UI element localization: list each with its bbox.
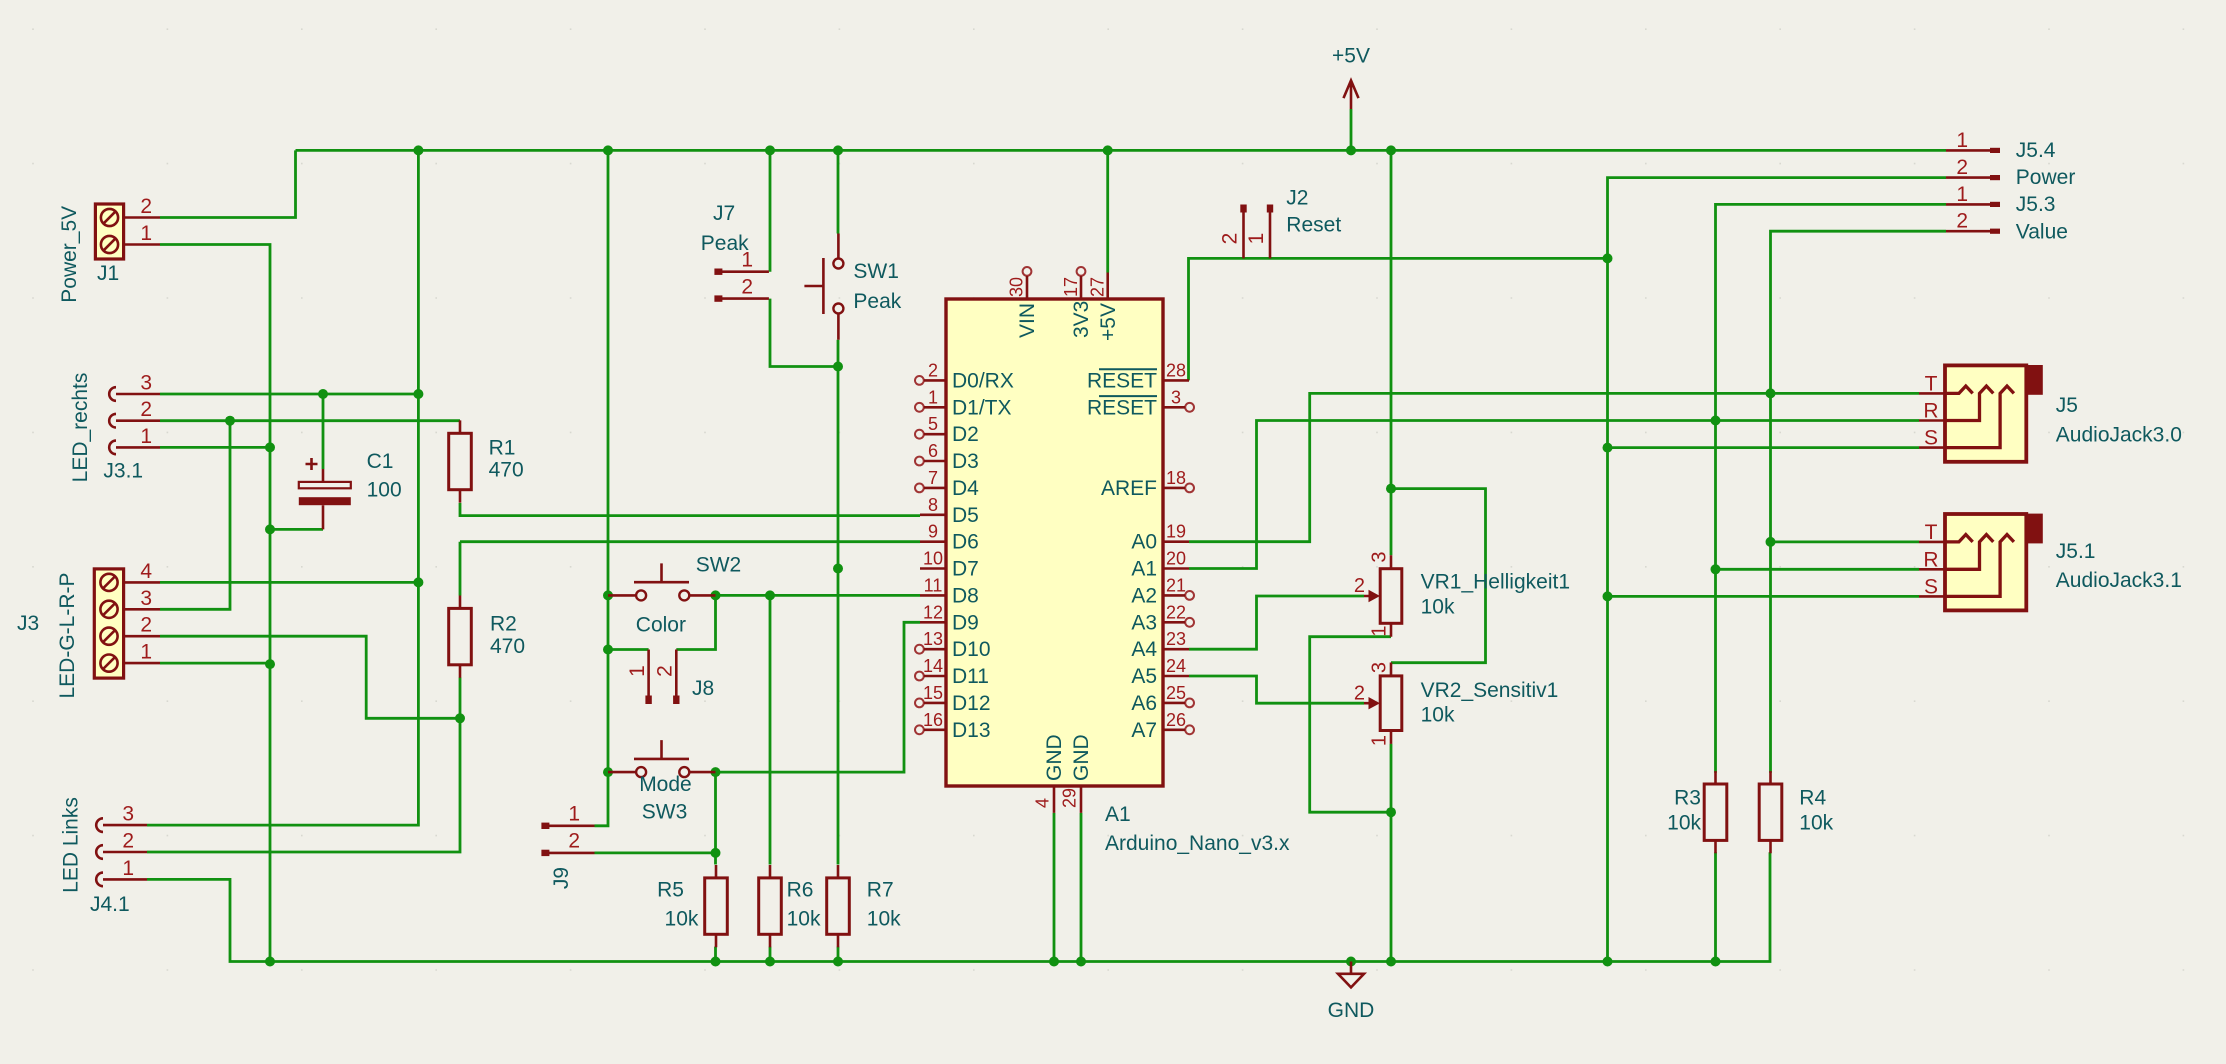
- svg-text:R: R: [1923, 548, 1938, 571]
- svg-text:GND: GND: [1328, 999, 1375, 1022]
- svg-text:Mode: Mode: [639, 773, 692, 796]
- svg-text:S: S: [1924, 575, 1938, 598]
- svg-text:D1/TX: D1/TX: [952, 396, 1012, 419]
- svg-text:2: 2: [928, 360, 938, 380]
- svg-text:J7: J7: [713, 202, 735, 225]
- svg-text:+5V: +5V: [1332, 45, 1370, 68]
- svg-text:Power: Power: [2016, 166, 2076, 189]
- svg-text:R6: R6: [787, 878, 814, 901]
- svg-text:1: 1: [140, 222, 152, 245]
- svg-text:1: 1: [741, 249, 753, 272]
- svg-text:1: 1: [122, 857, 134, 880]
- svg-text:J5: J5: [2056, 394, 2078, 417]
- svg-text:2: 2: [140, 398, 152, 421]
- svg-text:J2: J2: [1286, 186, 1308, 209]
- svg-text:J3.1: J3.1: [103, 460, 143, 483]
- svg-text:8: 8: [928, 495, 938, 515]
- svg-text:J8: J8: [692, 677, 714, 700]
- svg-text:R: R: [1923, 400, 1938, 423]
- svg-text:470: 470: [490, 635, 525, 658]
- svg-text:2: 2: [1219, 233, 1242, 245]
- svg-text:3: 3: [140, 372, 152, 395]
- svg-text:LED Links: LED Links: [60, 797, 83, 893]
- svg-text:LED-G-L-R-P: LED-G-L-R-P: [56, 572, 79, 698]
- svg-text:1: 1: [140, 641, 152, 664]
- svg-text:VR2_Sensitiv1: VR2_Sensitiv1: [1421, 679, 1559, 702]
- svg-text:7: 7: [928, 468, 938, 488]
- svg-text:J5.1: J5.1: [2056, 540, 2096, 563]
- svg-text:Arduino_Nano_v3.x: Arduino_Nano_v3.x: [1105, 832, 1290, 855]
- svg-text:C1: C1: [367, 450, 394, 473]
- svg-text:D5: D5: [952, 504, 979, 527]
- svg-text:SW2: SW2: [696, 554, 742, 577]
- svg-text:D3: D3: [952, 450, 979, 473]
- svg-text:D4: D4: [952, 477, 979, 500]
- svg-text:2: 2: [140, 614, 152, 637]
- svg-text:AudioJack3.1: AudioJack3.1: [2056, 569, 2182, 592]
- svg-text:2: 2: [122, 830, 134, 853]
- svg-text:17: 17: [1061, 277, 1081, 297]
- svg-text:RESET: RESET: [1087, 369, 1157, 392]
- svg-text:A5: A5: [1131, 665, 1157, 688]
- svg-text:T: T: [1925, 521, 1938, 544]
- svg-text:10k: 10k: [665, 907, 699, 930]
- svg-text:J9: J9: [550, 867, 573, 889]
- svg-text:2: 2: [1956, 156, 1968, 179]
- svg-text:2: 2: [654, 665, 677, 677]
- svg-text:D0/RX: D0/RX: [952, 369, 1014, 392]
- svg-text:27: 27: [1088, 277, 1108, 297]
- svg-text:10: 10: [923, 549, 943, 569]
- svg-text:22: 22: [1166, 602, 1186, 622]
- svg-text:Peak: Peak: [853, 290, 901, 313]
- svg-text:D2: D2: [952, 423, 979, 446]
- svg-text:9: 9: [928, 522, 938, 542]
- svg-text:1: 1: [1956, 183, 1968, 206]
- svg-text:1: 1: [1245, 233, 1268, 245]
- svg-text:10k: 10k: [1421, 704, 1455, 727]
- svg-text:2: 2: [1354, 575, 1365, 597]
- svg-text:Value: Value: [2016, 220, 2068, 243]
- svg-text:J5.3: J5.3: [2016, 193, 2056, 216]
- svg-text:Power_5V: Power_5V: [58, 206, 81, 303]
- svg-text:2: 2: [741, 276, 753, 299]
- svg-text:Reset: Reset: [1286, 214, 1341, 237]
- svg-text:10k: 10k: [1421, 596, 1455, 619]
- svg-text:A0: A0: [1131, 531, 1157, 554]
- svg-text:2: 2: [568, 829, 580, 852]
- svg-text:1: 1: [1956, 129, 1968, 152]
- svg-text:S: S: [1924, 427, 1938, 450]
- svg-text:R4: R4: [1799, 786, 1826, 809]
- svg-text:+5V: +5V: [1097, 303, 1120, 341]
- svg-text:AREF: AREF: [1101, 477, 1157, 500]
- svg-text:A3: A3: [1131, 611, 1157, 634]
- svg-text:10k: 10k: [867, 907, 901, 930]
- svg-text:J5.4: J5.4: [2016, 139, 2056, 162]
- svg-text:D6: D6: [952, 531, 979, 554]
- svg-text:RESET: RESET: [1087, 396, 1157, 419]
- svg-text:21: 21: [1166, 575, 1186, 595]
- svg-text:10k: 10k: [787, 907, 821, 930]
- svg-text:R2: R2: [490, 613, 517, 636]
- svg-text:5: 5: [928, 414, 938, 434]
- svg-text:3: 3: [1369, 551, 1391, 562]
- svg-text:VIN: VIN: [1016, 303, 1039, 338]
- svg-text:Color: Color: [636, 614, 686, 637]
- svg-text:13: 13: [923, 629, 943, 649]
- svg-text:15: 15: [923, 683, 943, 703]
- svg-text:A7: A7: [1131, 719, 1157, 742]
- svg-text:D13: D13: [952, 719, 991, 742]
- svg-text:R7: R7: [867, 878, 894, 901]
- svg-text:19: 19: [1166, 522, 1186, 542]
- svg-text:28: 28: [1166, 360, 1186, 380]
- svg-text:24: 24: [1166, 656, 1186, 676]
- svg-text:D12: D12: [952, 692, 991, 715]
- svg-text:D10: D10: [952, 638, 991, 661]
- svg-text:D9: D9: [952, 611, 979, 634]
- svg-text:26: 26: [1166, 710, 1186, 730]
- svg-text:1: 1: [626, 665, 649, 677]
- svg-text:1: 1: [928, 387, 938, 407]
- svg-text:3: 3: [1171, 387, 1181, 407]
- svg-text:30: 30: [1007, 277, 1027, 297]
- svg-text:A1: A1: [1105, 803, 1131, 826]
- svg-text:J1: J1: [97, 262, 119, 285]
- svg-text:11: 11: [924, 575, 943, 595]
- svg-text:1: 1: [1369, 625, 1391, 636]
- svg-text:23: 23: [1166, 629, 1186, 649]
- svg-text:SW3: SW3: [642, 801, 688, 824]
- svg-text:VR1_Helligkeit1: VR1_Helligkeit1: [1421, 571, 1570, 594]
- svg-text:6: 6: [928, 441, 938, 461]
- svg-text:3V3: 3V3: [1070, 301, 1093, 338]
- svg-text:16: 16: [923, 710, 943, 730]
- svg-text:14: 14: [923, 656, 943, 676]
- svg-text:D8: D8: [952, 584, 979, 607]
- svg-text:2: 2: [1354, 682, 1365, 704]
- svg-text:3: 3: [1369, 662, 1391, 673]
- svg-text:AudioJack3.0: AudioJack3.0: [2056, 424, 2182, 447]
- svg-text:4: 4: [140, 560, 152, 583]
- svg-text:29: 29: [1060, 788, 1080, 808]
- svg-text:R3: R3: [1674, 786, 1701, 809]
- svg-text:12: 12: [923, 602, 943, 622]
- svg-text:1: 1: [1369, 735, 1391, 746]
- svg-text:R5: R5: [657, 878, 684, 901]
- svg-text:J4.1: J4.1: [90, 893, 130, 916]
- svg-text:100: 100: [367, 478, 402, 501]
- svg-text:D7: D7: [952, 558, 979, 581]
- svg-text:A4: A4: [1131, 638, 1157, 661]
- svg-text:D11: D11: [952, 665, 989, 688]
- svg-text:GND: GND: [1070, 734, 1093, 781]
- svg-text:A2: A2: [1131, 584, 1157, 607]
- svg-text:A6: A6: [1131, 692, 1157, 715]
- svg-text:3: 3: [122, 803, 134, 826]
- svg-text:25: 25: [1166, 683, 1186, 703]
- svg-text:T: T: [1925, 372, 1938, 395]
- svg-text:18: 18: [1166, 468, 1186, 488]
- svg-text:GND: GND: [1043, 734, 1066, 781]
- svg-text:2: 2: [1956, 210, 1968, 233]
- svg-text:J3: J3: [17, 612, 39, 635]
- svg-text:10k: 10k: [1799, 812, 1833, 835]
- svg-text:SW1: SW1: [853, 260, 899, 283]
- svg-text:1: 1: [568, 802, 580, 825]
- svg-text:R1: R1: [489, 436, 516, 459]
- svg-text:A1: A1: [1131, 558, 1157, 581]
- svg-text:LED_rechts: LED_rechts: [69, 373, 92, 483]
- svg-text:470: 470: [489, 459, 524, 482]
- svg-text:3: 3: [140, 587, 152, 610]
- svg-text:1: 1: [140, 425, 152, 448]
- svg-text:10k: 10k: [1667, 812, 1701, 835]
- svg-text:2: 2: [140, 195, 152, 218]
- svg-text:20: 20: [1166, 549, 1186, 569]
- svg-text:4: 4: [1033, 798, 1053, 808]
